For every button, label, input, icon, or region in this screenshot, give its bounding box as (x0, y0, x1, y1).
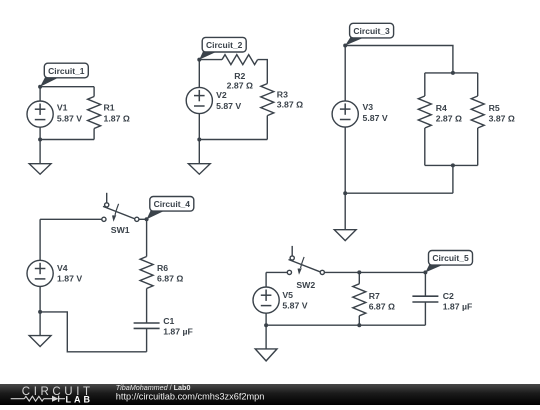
svg-text:R2: R2 (234, 71, 245, 81)
ground circuit 5 (255, 349, 277, 361)
switch SW2 upper-throw stub (291, 246, 293, 256)
switch SW1 upper-throw terminal circle (105, 203, 109, 207)
switch SW2 right terminal circle (320, 270, 324, 274)
label V4 value 1.87 V (57, 263, 82, 283)
wire bottom rail circuit 1 (40, 139, 94, 141)
svg-text:5.87 V: 5.87 V (282, 300, 307, 310)
svg-text:V3: V3 (363, 102, 374, 112)
svg-text:R1: R1 (104, 103, 115, 113)
wire V3 bottom lead (344, 127, 346, 193)
node junction parallel top (451, 71, 455, 75)
node junction C2 top (423, 270, 427, 274)
label R2 value 2.87 ohm (227, 71, 253, 91)
voltage source V3 (332, 101, 358, 127)
node junction circuit 4 switch-R6 (145, 217, 149, 221)
switch SW2 (287, 246, 324, 290)
node junction circuit 1 top (38, 85, 42, 89)
switch SW2 lever (289, 260, 323, 273)
svg-text:SW1: SW1 (111, 225, 130, 235)
wire C2 top lead (424, 272, 426, 296)
wire parallel bottom stem (452, 165, 454, 193)
node junction circuit 4 V4 bottom (38, 310, 42, 314)
wire switch SW1 to node (139, 218, 147, 220)
svg-text:V2: V2 (216, 90, 227, 100)
svg-text:V1: V1 (57, 103, 68, 113)
switch SW1 actuation arrow (115, 204, 119, 215)
wire V5 to switch SW2 (266, 271, 287, 273)
svg-text:C1: C1 (163, 316, 174, 326)
wire V5 bottom lead (265, 313, 267, 325)
svg-text:V4: V4 (57, 263, 68, 273)
svg-text:1.87 Ω: 1.87 Ω (104, 113, 130, 123)
svg-text:R6: R6 (157, 263, 168, 273)
switch SW2 actuation arrow (301, 257, 305, 268)
svg-text:SW2: SW2 (296, 280, 315, 290)
wire top rail circuit 1 (40, 86, 94, 88)
wire top-right corner circuit 2 (258, 60, 268, 84)
label R4 value 2.87 ohm (436, 103, 462, 123)
label callout Circuit_1 (40, 63, 88, 86)
label callout Circuit_4 (147, 197, 194, 220)
wire parallel top bar circuit 3 (425, 72, 478, 74)
wire V1 bottom lead (39, 127, 41, 139)
wire C2 bottom lead (424, 302, 426, 325)
wire node to R6 (146, 219, 148, 256)
wire V4 to switch SW1 (40, 218, 102, 220)
node junction R7 top (357, 270, 361, 274)
switch SW1 lever (103, 206, 137, 219)
footer title TibaMohammed / Lab0 (116, 383, 191, 392)
svg-text:6.87 Ω: 6.87 Ω (369, 301, 395, 311)
svg-text:6.87 Ω: 6.87 Ω (157, 273, 183, 283)
wire ground stem circuit 4 (39, 312, 41, 336)
svg-text:3.87 Ω: 3.87 Ω (489, 113, 515, 123)
label V2 value 5.87 V (216, 90, 241, 111)
wire V4 bottom lead (39, 287, 41, 312)
ground circuit 1 (29, 164, 51, 175)
wire V4 top lead (39, 219, 41, 260)
wire ground stem circuit 5 (265, 325, 267, 349)
ground circuit 4 (29, 336, 51, 347)
wire V3 top lead (344, 46, 346, 101)
wire ground stem circuit 2 (198, 140, 200, 164)
wire R7 top lead (358, 272, 360, 283)
wire V2 top lead (198, 60, 200, 88)
switch SW2 left terminal circle (287, 270, 291, 274)
node junction circuit 2 bottom (197, 138, 201, 142)
wire V2 bottom lead (198, 114, 200, 140)
svg-text:2.87 Ω: 2.87 Ω (227, 80, 253, 90)
svg-text:3.87 Ω: 3.87 Ω (277, 100, 303, 110)
node junction parallel bottom (451, 163, 455, 167)
label V5 value 5.87 V (282, 290, 307, 310)
switch SW1 right terminal circle (135, 217, 139, 221)
wire switch SW2 to C2 node (324, 271, 425, 273)
wire bottom rail circuit 3 (345, 192, 453, 194)
wire top rail circuit 3 (345, 46, 453, 73)
svg-text:5.87 V: 5.87 V (57, 113, 82, 123)
wire bottom rail circuit 4 (40, 312, 147, 352)
svg-text:1.87 V: 1.87 V (57, 273, 82, 283)
label callout Circuit_5 (425, 251, 472, 273)
voltage source V4 (27, 260, 53, 286)
svg-text:R4: R4 (436, 103, 447, 113)
svg-text:Circuit_3: Circuit_3 (353, 26, 390, 36)
label C2 value 1.87 uF (443, 291, 473, 311)
capacitor C1 (134, 323, 160, 328)
svg-text:R7: R7 (369, 291, 380, 301)
switch SW1 upper-throw stub (106, 193, 108, 203)
svg-text:Circuit_4: Circuit_4 (154, 199, 191, 209)
svg-text:5.87 V: 5.87 V (216, 101, 241, 111)
resistor R5 (471, 73, 484, 165)
resistor R7 (353, 284, 366, 325)
label V1 value 5.87 V (57, 103, 82, 124)
wire bottom rail circuit 2 (199, 139, 267, 141)
voltage source V5 (253, 287, 279, 313)
label R6 value 6.87 ohm (157, 263, 183, 283)
svg-text:2.87 Ω: 2.87 Ω (436, 113, 462, 123)
resistor R4 (418, 73, 431, 165)
CircuitLab logo resistor-diode squiggle (11, 396, 65, 402)
svg-text:V5: V5 (282, 290, 293, 300)
node junction V5 bottom (264, 323, 268, 327)
svg-text:http://circuitlab.com/cmhs3zx6: http://circuitlab.com/cmhs3zx6f2mpn (116, 391, 265, 401)
wire V1 top lead (39, 87, 41, 101)
wire bottom rail circuit 5 (266, 324, 425, 326)
ground circuit 2 (188, 164, 210, 175)
wire top-left lead circuit 2 (199, 59, 222, 61)
label R1 value 1.87 ohm (104, 103, 130, 124)
svg-text:1.87 µF: 1.87 µF (443, 301, 473, 311)
wire C1 bottom to rail (146, 328, 148, 351)
svg-text:C2: C2 (443, 291, 454, 301)
label callout Circuit_3 (345, 23, 393, 45)
label R7 value 6.87 ohm (369, 291, 395, 311)
wire ground stem circuit 3 (344, 193, 346, 230)
voltage source V1 (27, 101, 53, 127)
wire parallel bottom bar circuit 3 (425, 164, 478, 166)
svg-text:Circuit_5: Circuit_5 (432, 253, 469, 263)
wire V5 top lead (265, 272, 267, 287)
label R3 value 3.87 ohm (277, 90, 303, 110)
resistor R6 (140, 257, 153, 324)
node junction circuit 3 bottom-left (343, 191, 347, 195)
label R5 value 3.87 ohm (489, 103, 515, 123)
resistor R3 (261, 84, 274, 140)
svg-text:1.87 µF: 1.87 µF (163, 326, 193, 336)
ground circuit 3 (334, 230, 356, 241)
node junction circuit 2 top (197, 58, 201, 62)
resistor R2 (horizontal) (222, 55, 258, 65)
voltage source V2 (186, 87, 212, 113)
label callout Circuit_2 (199, 37, 246, 59)
switch SW2 upper-throw terminal circle (290, 256, 294, 260)
svg-text:R3: R3 (277, 90, 288, 100)
node junction circuit 1 bottom (38, 138, 42, 142)
node junction R7 bottom (357, 323, 361, 327)
resistor R1 (88, 87, 101, 140)
svg-text:Circuit_2: Circuit_2 (206, 40, 243, 50)
svg-text:5.87 V: 5.87 V (363, 113, 388, 123)
label V3 value 5.87 V (363, 102, 388, 123)
node junction circuit 3 top-left (343, 44, 347, 48)
svg-text:LAB: LAB (66, 395, 94, 405)
switch SW1 left terminal circle (102, 217, 106, 221)
capacitor C2 (412, 296, 438, 302)
svg-text:R5: R5 (489, 103, 500, 113)
svg-text:Circuit_1: Circuit_1 (48, 66, 85, 76)
wire ground stem circuit 1 (39, 140, 41, 164)
switch SW1 (102, 193, 139, 235)
label C1 value 1.87 uF (163, 316, 193, 336)
